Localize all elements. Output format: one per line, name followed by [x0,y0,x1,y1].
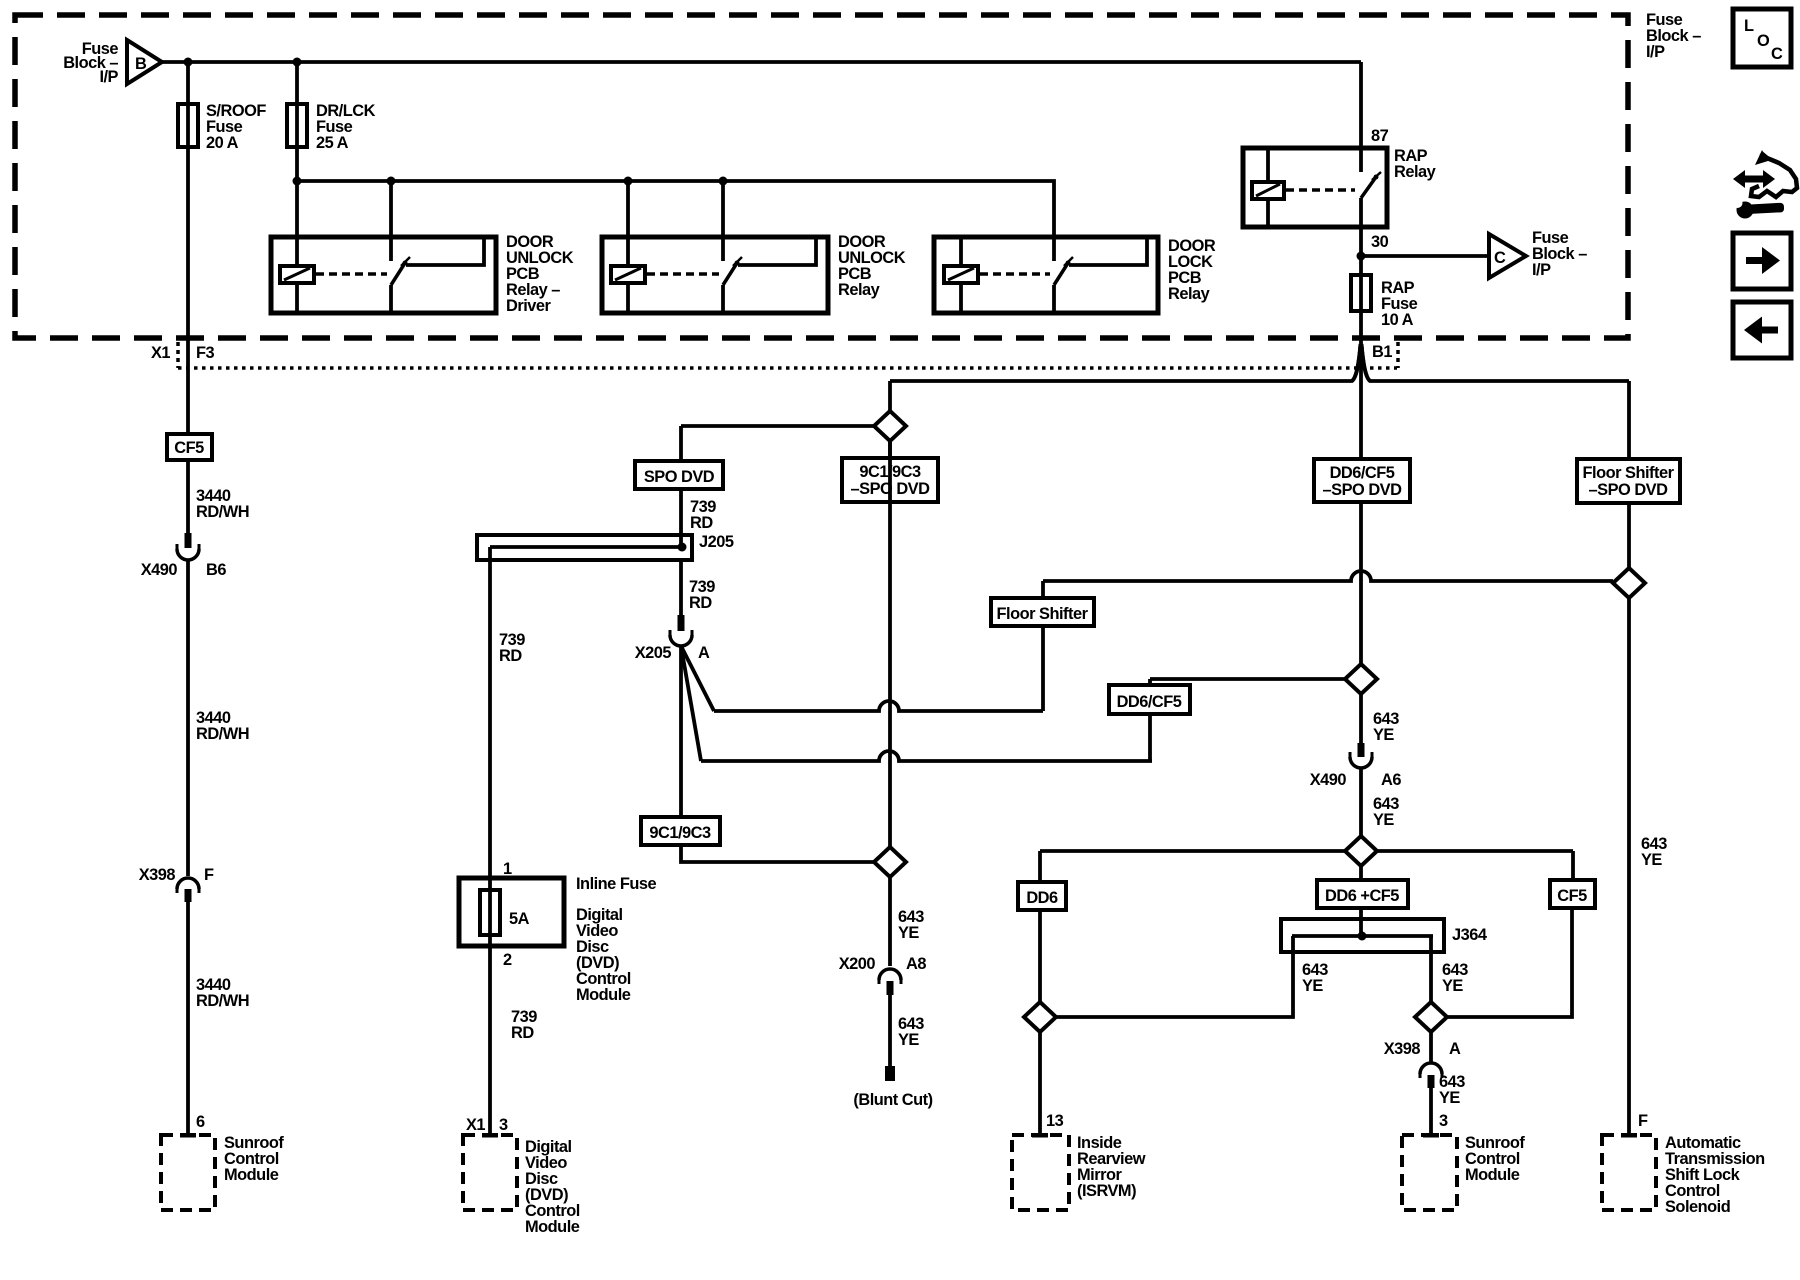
wire diamond 862 to X200 [888,877,892,966]
svg-text:B6: B6 [206,561,226,579]
svg-text:F3: F3 [196,344,215,362]
svg-text:DD6/CF5: DD6/CF5 [1117,693,1182,711]
wire J364 right output [1429,936,1433,1062]
wire floor shifter stubs [1041,581,1045,711]
svg-text:Module: Module [224,1166,279,1184]
wire X205 fan vertical to 9C1/9C3 [679,646,683,817]
svg-text:CF5: CF5 [174,439,204,457]
module box shift lock solenoid [1602,1135,1656,1210]
inline fuse element 5A [480,890,500,935]
svg-text:I/P: I/P [99,68,118,86]
svg-text:DD6: DD6 [1026,889,1058,907]
svg-text:RD: RD [689,594,712,612]
svg-text:Module: Module [1465,1166,1520,1184]
svg-text:RD: RD [511,1024,534,1042]
wire X398A to sunroof module [1429,1088,1433,1133]
svg-text:–SPO DVD: –SPO DVD [851,480,931,498]
fuse block I/P dashed boundary [15,15,1628,338]
relay box door unlock driver [271,237,496,313]
connector X398 A cap [1420,1063,1442,1074]
svg-text:F: F [1638,1112,1648,1130]
svg-text:L: L [1744,17,1754,35]
svg-text:Solenoid: Solenoid [1665,1198,1730,1216]
connector B1 separator [1396,342,1400,368]
svg-text:YE: YE [898,924,919,942]
wire X398 F to sunroof module [186,902,190,1133]
relay1 coil [280,266,314,283]
B1 feed arrow [1352,344,1370,381]
svg-text:RD: RD [499,647,522,665]
svg-text:X398: X398 [139,866,176,884]
svg-text:A: A [698,644,710,662]
svg-text:Driver: Driver [506,297,552,315]
svg-text:O: O [1757,32,1770,50]
svg-text:RD/WH: RD/WH [196,503,249,521]
svg-text:A6: A6 [1381,771,1401,789]
net box CF5 right [1550,880,1595,908]
svg-text:Relay: Relay [838,281,881,299]
wire relay2 pivot [721,285,725,313]
svg-text:DD6/CF5: DD6/CF5 [1330,464,1395,482]
relay2 coil [611,266,645,283]
blunt cut end [885,1066,895,1081]
svg-text:Inline Fuse: Inline Fuse [576,875,656,893]
svg-text:RD/WH: RD/WH [196,725,249,743]
wire main feed from triangle B [162,60,1361,64]
legend arrow left box [1733,302,1791,358]
wire to triangle C [1361,254,1489,258]
svg-text:X1: X1 [151,344,170,362]
wire J205 left output to inline fuse [488,547,492,1133]
svg-text:Module: Module [525,1218,580,1236]
svg-text:–SPO DVD: –SPO DVD [1323,481,1403,499]
svg-text:–SPO DVD: –SPO DVD [1589,481,1669,499]
splice pack J205 [477,535,692,560]
wire B1 down to DD6/CF5-SPO DVD [1359,339,1363,459]
svg-text:YE: YE [898,1031,919,1049]
wire relay3 coil [959,239,963,313]
svg-text:X1: X1 [466,1116,485,1134]
wire DD6 stub [1038,851,1042,882]
svg-text:X200: X200 [839,955,876,973]
legend arrow right box [1733,233,1791,289]
svg-text:(ISRVM): (ISRVM) [1077,1182,1136,1200]
wire floor shifter SPO DVD column [1627,381,1631,1133]
wire CF5R to diamond 1431 [1448,908,1572,1017]
diamond junction 890,426 [874,411,906,441]
svg-text:9C1/9C3: 9C1/9C3 [859,463,921,481]
triangle connector B [127,40,162,84]
inline fuse box [459,878,564,946]
svg-text:J364: J364 [1452,926,1488,944]
wire J205 bus [490,545,682,549]
svg-text:Relay: Relay [1168,285,1211,303]
diamond junction 1431,1017 [1415,1002,1447,1032]
wire J364 left output [1057,936,1293,1017]
wire CF5L down to X490 B6 [186,460,190,536]
wire DD6/CF5 label stubs [1148,679,1152,761]
svg-text:(Blunt Cut): (Blunt Cut) [853,1091,932,1109]
net box DD6 +CF5 [1317,880,1408,908]
svg-text:B1: B1 [1372,343,1392,361]
connector boundary dotted line X1/B1 [178,366,1397,370]
wire junction 890 vertical [888,381,892,458]
svg-text:25 A: 25 A [316,134,349,152]
svg-text:YE: YE [1373,811,1394,829]
wire J364 inner bus [1292,934,1433,938]
svg-text:9C1/9C3: 9C1/9C3 [649,824,711,842]
wire DD6 to ISRVM [1038,910,1042,1133]
net box 9C1/9C3 -SPO DVD [842,458,938,502]
net box DD6 [1018,882,1066,910]
svg-text:RD/WH: RD/WH [196,992,249,1010]
wire SPO DVD to J205 [679,489,683,547]
svg-text:F: F [204,866,214,884]
diamond junction 890,862 [874,847,906,877]
wire B1 right leg to floor shifter SPO DVD [1362,344,1630,381]
diamond junction 1361,679 [1345,664,1377,694]
svg-text:C: C [1494,249,1506,267]
wire DD6/CF5 run with hop [701,751,1152,761]
fuse RAP 10A [1351,275,1371,311]
wire B1 left leg to junction 890 [890,344,1361,381]
svg-text:C: C [1771,45,1783,63]
wire relay1 pivot [389,285,393,313]
svg-text:Relay: Relay [1394,163,1437,181]
svg-text:I/P: I/P [1646,43,1665,61]
module box sunroof control left [161,1135,215,1210]
svg-text:I/P: I/P [1532,261,1551,279]
connector X490 B6 pin [185,533,192,548]
svg-text:2: 2 [503,951,512,969]
relay box door lock [934,237,1158,313]
svg-text:RD: RD [690,514,713,532]
wire X200 to blunt cut [888,995,892,1066]
connector X200 A8 cap [879,969,901,980]
wire to SPO DVD box [681,426,874,461]
net box Floor Shifter -SPO DVD [1577,459,1680,503]
relay2 actuator dashes [647,272,719,276]
net box SPO DVD [635,461,723,489]
svg-text:SPO DVD: SPO DVD [644,468,715,486]
RAP actuator dashes [1286,188,1355,192]
net box DD6/CF5 [1109,685,1190,714]
diamond junction 1629,583 [1613,568,1645,598]
wire X490 B6 to X398 F [186,559,190,876]
module box ISRVM [1012,1135,1069,1210]
net box CF5 left [167,434,212,460]
wire CF5R stub [1571,851,1575,880]
fuse S/ROOF 20A [178,104,198,147]
wire J205 to X205 [679,560,683,616]
wire S/ROOF fuse vertical [186,62,190,434]
module box sunroof control right [1402,1135,1457,1210]
connector X490 A6 pin [1358,743,1365,757]
svg-text:6: 6 [196,1113,205,1131]
svg-text:3: 3 [499,1116,508,1134]
wire DD6 CF5 horizontal 851 [1040,849,1573,853]
wire relay3 output [1069,239,1147,265]
wire relay1 coil bottom [295,283,299,313]
svg-text:1: 1 [503,860,512,878]
diamond junction 1040,1017 [1024,1002,1056,1032]
relay3 coil [944,266,978,283]
svg-text:Floor Shifter: Floor Shifter [1583,464,1675,482]
svg-text:30: 30 [1371,233,1389,251]
svg-text:13: 13 [1046,1112,1064,1130]
wire X205 diagonal to DD6/CF5 run [681,646,701,761]
svg-text:CF5: CF5 [1557,887,1587,905]
net box Floor Shifter [991,598,1094,626]
module pin tbars [180,1133,196,1138]
net box 9C1/9C3 [641,817,720,845]
svg-text:20 A: 20 A [206,134,239,152]
connector X205 A pin [678,615,685,631]
wire RAP pivot down through fuse to B1 [1359,198,1363,339]
svg-text:J205: J205 [699,533,734,551]
svg-text:87: 87 [1371,127,1389,145]
wire relay3 pivot [1052,285,1056,313]
service icon wrench [1737,202,1754,219]
wire relay2 coil [626,181,630,313]
splice pack J364 [1281,919,1444,952]
svg-text:B: B [135,55,147,73]
wire RAP relay coil stubs [1266,150,1270,225]
wire relay1 output [406,239,484,265]
wire 9C1/9C3 down to diamond 862 [681,845,874,862]
triangle connector C [1489,234,1526,278]
svg-text:5A: 5A [509,910,530,928]
wire floor shifter top run with hop [1043,571,1613,581]
wire DD6/CF5 label to diamond [1150,677,1344,681]
wire RAP switch input [1359,62,1363,172]
loc legend box [1733,9,1791,67]
svg-text:X490: X490 [1310,771,1347,789]
junction dots [184,58,193,67]
diamond junction 1361,851 [1345,836,1377,866]
svg-text:DD6 +CF5: DD6 +CF5 [1325,887,1399,905]
svg-text:YE: YE [1302,977,1323,995]
svg-text:YE: YE [1442,977,1463,995]
svg-text:A: A [1449,1040,1461,1058]
wire floor shifter run with hop [714,701,1043,711]
connector X398 F cap [177,878,199,889]
wire long vertical x890 [888,441,892,847]
connector X1 separator [176,342,180,368]
svg-text:3: 3 [1439,1112,1448,1130]
svg-text:YE: YE [1641,851,1662,869]
wire X205 diagonal to floor shifter run [681,646,714,711]
svg-text:YE: YE [1439,1089,1460,1107]
wire relay2 switch input [721,181,725,261]
relay3 blade [1054,263,1068,285]
module box DVD control [463,1135,517,1210]
net box DD6/CF5 -SPO DVD [1314,459,1410,502]
svg-text:A8: A8 [906,955,926,973]
fuse DR/LCK 25A [287,104,307,147]
svg-text:10 A: 10 A [1381,311,1414,329]
svg-text:X490: X490 [141,561,178,579]
svg-text:X398: X398 [1384,1040,1421,1058]
RAP coil [1252,182,1284,199]
relay2 blade [723,263,737,285]
relay box door unlock [602,237,828,313]
relay1 actuator dashes [316,272,387,276]
service icon double arrow [1733,170,1775,188]
wire relay branch [297,181,1054,261]
wire DD6/CF5-SPO DVD down chain [1359,502,1363,936]
wire relay2 output [738,239,816,265]
service icon outline [1751,153,1797,197]
svg-text:YE: YE [1373,726,1394,744]
svg-text:X205: X205 [635,644,672,662]
relay3 actuator dashes [980,272,1050,276]
relay box RAP [1243,148,1387,227]
relay1 blade [391,263,405,285]
wire relay1 switch input [389,181,393,261]
RAP blade [1361,177,1376,198]
svg-text:Module: Module [576,986,631,1004]
wire DR/LCK fuse vertical [295,62,299,266]
svg-text:Floor Shifter: Floor Shifter [997,605,1089,623]
